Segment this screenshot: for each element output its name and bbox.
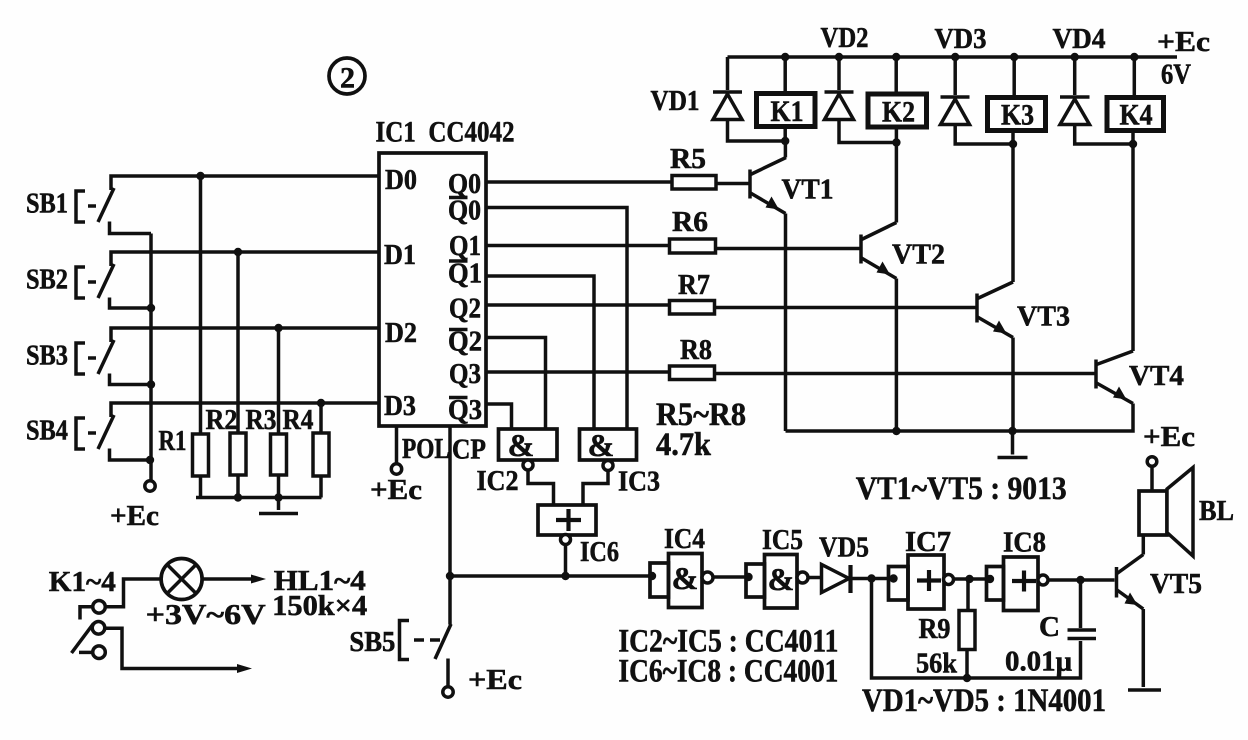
- wire VT5 emitter down: [1142, 609, 1146, 687]
- transistor VT3: [977, 282, 1070, 338]
- svg-text:0.01μ: 0.01μ: [1005, 646, 1073, 678]
- resistor R1: [159, 176, 209, 498]
- speaker BL: [1139, 468, 1234, 557]
- svg-text:+Ec: +Ec: [1157, 26, 1210, 58]
- wire Q3 to R8: [486, 370, 670, 374]
- lamp HL: [161, 559, 202, 600]
- resistor R3: [246, 328, 287, 498]
- wire D2: [111, 328, 379, 342]
- switch SB1: [26, 188, 151, 234]
- gate IC5: [746, 524, 808, 608]
- capacitor C: [1005, 580, 1096, 678]
- svg-text:&: &: [588, 427, 615, 463]
- svg-text:VT1~VT5 : 9013: VT1~VT5 : 9013: [856, 471, 1067, 507]
- node K1 bottom junction: [781, 137, 789, 145]
- svg-text:+3V~6V: +3V~6V: [146, 599, 266, 631]
- node R9 top junction: [965, 575, 973, 583]
- IC U1 body: [379, 153, 486, 426]
- gate IC7: [889, 526, 954, 609]
- gate IC3: [580, 427, 661, 498]
- svg-text:R6: R6: [672, 206, 708, 238]
- node R2 tap on D1: [234, 248, 242, 256]
- svg-text:4.7k: 4.7k: [656, 427, 712, 463]
- ground of resistor network: [259, 498, 298, 514]
- svg-text:+Ec: +Ec: [468, 664, 522, 696]
- svg-text:VD3: VD3: [935, 23, 987, 55]
- node VD5 feedback junction: [867, 574, 875, 582]
- switch SB3: [26, 340, 151, 385]
- svg-text:D0: D0: [385, 164, 417, 196]
- svg-text:D3: D3: [384, 390, 416, 422]
- node rail VD4: [1071, 53, 1079, 61]
- svg-text:VD5: VD5: [819, 532, 869, 564]
- svg-text:&: &: [672, 560, 699, 596]
- wire VD5 to IC7: [851, 577, 890, 581]
- svg-text:R3: R3: [246, 404, 277, 436]
- svg-text:+Ec: +Ec: [370, 474, 422, 506]
- terminal +Ec of speaker: [1143, 421, 1195, 491]
- wire common bus of SB switches: [149, 234, 153, 481]
- node R3 bottom junction: [274, 493, 282, 501]
- wire VT4 collector: [1131, 144, 1135, 351]
- node rail VD3: [951, 53, 959, 61]
- svg-text:SB3: SB3: [26, 340, 68, 372]
- node R2 bottom junction: [234, 493, 242, 501]
- svg-text:VT5: VT5: [1150, 568, 1202, 600]
- svg-text:R4: R4: [283, 404, 314, 436]
- svg-text:Q0: Q0: [448, 195, 481, 227]
- node IC4 input: [648, 572, 656, 580]
- svg-text:VD4: VD4: [1053, 23, 1106, 55]
- diode VD5: [819, 532, 869, 594]
- svg-text:VT4: VT4: [1129, 360, 1184, 392]
- resistor R6: [670, 206, 716, 253]
- svg-text:SB5: SB5: [349, 626, 395, 658]
- svg-text:2: 2: [340, 62, 355, 95]
- svg-text:C: C: [1039, 611, 1060, 643]
- wire R6 to VT2 base: [716, 247, 860, 251]
- svg-text:150k×4: 150k×4: [272, 590, 367, 622]
- svg-text:VT1: VT1: [782, 174, 834, 206]
- wire IC8 to VT5 base: [1048, 578, 1115, 582]
- wire Q0 to R5: [486, 180, 672, 184]
- pin POL stub and terminal: [370, 426, 422, 506]
- wire VT5 collector to speaker: [1142, 535, 1146, 555]
- svg-text:IC6: IC6: [580, 536, 619, 568]
- gate IC4: [650, 523, 713, 608]
- wire D3: [111, 403, 379, 417]
- wire feedback bottom: [872, 579, 1081, 679]
- node R3 tap on D2: [274, 324, 282, 332]
- svg-text:R7: R7: [678, 269, 710, 301]
- svg-text:IC6~IC8 : CC4001: IC6~IC8 : CC4001: [618, 654, 838, 690]
- wire emitter bus: [786, 404, 1134, 432]
- svg-text:IC3: IC3: [618, 466, 660, 498]
- node rail K3: [1010, 53, 1018, 61]
- resistor R2: [206, 252, 247, 498]
- svg-text:Q3: Q3: [449, 358, 481, 390]
- wire VT1 emitter down: [784, 214, 788, 432]
- svg-text:SB4: SB4: [26, 415, 68, 447]
- svg-text:D2: D2: [385, 317, 417, 349]
- svg-text:K2: K2: [882, 96, 915, 129]
- arrow to HL lamps bottom: [237, 664, 252, 673]
- node VT3 emitter junction: [1008, 427, 1016, 435]
- wire Q2bar: [486, 338, 546, 431]
- transistor VT1: [750, 158, 834, 214]
- diode VD3: [935, 23, 1014, 144]
- svg-text:IC1 CC4042: IC1 CC4042: [376, 116, 515, 149]
- node SB3 junction: [147, 380, 155, 388]
- node IC6 bus junction: [561, 572, 569, 580]
- switch SB5: [349, 621, 522, 698]
- wire CP line down: [448, 426, 452, 625]
- wire D0: [111, 176, 379, 190]
- switch SB2: [26, 264, 151, 309]
- svg-text:SB2: SB2: [26, 264, 68, 296]
- resistor R5: [670, 143, 716, 189]
- transistor VT5: [1117, 555, 1203, 610]
- svg-text:+Ec: +Ec: [1143, 421, 1195, 453]
- svg-text:VD2: VD2: [821, 22, 869, 54]
- resistor R4: [283, 403, 330, 498]
- wire Q0bar: [486, 208, 627, 431]
- node SB4 junction: [146, 456, 154, 464]
- node SB2 junction: [147, 304, 155, 312]
- gate IC6: [538, 505, 619, 568]
- svg-text:K3: K3: [1001, 99, 1034, 132]
- ground of VT5: [1128, 688, 1161, 692]
- wire Q1 to R6: [486, 244, 670, 248]
- svg-text:POL: POL: [402, 433, 450, 465]
- node R4 tap on D3: [317, 399, 325, 407]
- wire IC6 output to bus: [564, 545, 568, 577]
- contact lever K1-4: [72, 624, 94, 654]
- ground of emitter bus: [998, 431, 1028, 458]
- svg-text:VD1: VD1: [651, 85, 700, 117]
- wire +Ec supply rail: [728, 55, 1178, 59]
- transistor VT2: [861, 223, 945, 279]
- diode VD4: [1053, 23, 1134, 144]
- terminal +Ec of SB bus: [145, 481, 155, 491]
- svg-text:6V: 6V: [1161, 59, 1191, 91]
- svg-text:K4: K4: [1120, 99, 1153, 132]
- node R1 tap on D0: [196, 172, 204, 180]
- wire IC4 to IC5: [713, 575, 746, 579]
- relay K2: [868, 57, 927, 143]
- svg-text:VT2: VT2: [892, 239, 945, 271]
- wire lamp right with arrow: [202, 577, 253, 581]
- relay K3: [988, 57, 1046, 144]
- contact circle top: [93, 601, 106, 614]
- wire contact pole left: [80, 607, 93, 620]
- node K2 bottom junction: [892, 138, 900, 146]
- node VT2 emitter junction: [892, 427, 900, 435]
- node IC8 input: [986, 575, 994, 583]
- contact circle middle: [92, 622, 105, 635]
- node K3 bottom junction: [1009, 140, 1017, 148]
- svg-text:R9: R9: [919, 613, 951, 645]
- node rail K2: [892, 53, 900, 61]
- svg-text:R1: R1: [159, 425, 187, 457]
- gate IC2: [477, 427, 558, 497]
- resistor R9: [916, 579, 975, 680]
- svg-text:Q2: Q2: [449, 293, 481, 325]
- wire IC3 output to IC6: [583, 471, 608, 506]
- gate IC8: [987, 527, 1049, 611]
- node rail K1: [781, 53, 789, 61]
- transistor VT4: [1096, 351, 1184, 404]
- wire VT1 collector: [784, 141, 788, 158]
- resistor R8: [670, 334, 715, 380]
- wire resistor bottom bus: [196, 496, 322, 500]
- node R9 bottom junction: [963, 674, 971, 682]
- node K4 bottom junction: [1129, 140, 1137, 148]
- wire Q3bar: [486, 404, 512, 430]
- relay K4: [1107, 57, 1164, 144]
- svg-text:R8: R8: [680, 334, 712, 366]
- wire VT3 collector: [1011, 144, 1015, 282]
- svg-text:IC2: IC2: [477, 465, 519, 497]
- svg-text:VT3: VT3: [1017, 301, 1070, 333]
- node C top junction: [1076, 576, 1084, 584]
- wire IC7 to IC8: [954, 577, 987, 581]
- svg-text:IC4: IC4: [664, 523, 705, 555]
- svg-text:CP: CP: [452, 434, 486, 466]
- node CP bus junction: [446, 572, 454, 580]
- figure number 2: [329, 58, 365, 95]
- wire VT2 collector: [895, 143, 899, 223]
- node rail K4: [1130, 53, 1138, 61]
- svg-text:IC8: IC8: [1003, 527, 1046, 559]
- svg-text:&: &: [508, 427, 535, 463]
- svg-text:R2: R2: [206, 404, 238, 436]
- wire VT2 emitter down: [895, 279, 899, 432]
- wire Q1bar: [486, 276, 594, 430]
- wire R5 to VT1 base: [716, 182, 749, 186]
- wire lamp to contact: [106, 579, 161, 607]
- wire contact bottom stub: [79, 651, 93, 655]
- node IC7 input: [889, 574, 897, 582]
- svg-text:R5: R5: [670, 143, 706, 175]
- svg-text:BL: BL: [1199, 495, 1234, 527]
- wire IC5 to VD5: [808, 576, 822, 580]
- switch SB4: [26, 415, 151, 461]
- svg-text:K1: K1: [771, 95, 804, 128]
- diode VD2: [821, 22, 897, 143]
- node IC5 input: [744, 573, 752, 581]
- resistor R7: [670, 269, 715, 314]
- svg-text:SB1: SB1: [26, 188, 68, 220]
- wire VT3 emitter down: [1011, 338, 1015, 432]
- svg-text:VD1~VD5 : 1N4001: VD1~VD5 : 1N4001: [862, 683, 1106, 719]
- contact circle bottom: [93, 646, 106, 659]
- wire R7 to VT3 base: [715, 306, 977, 310]
- svg-text:&: &: [768, 561, 795, 597]
- wire oscillator bus: [450, 574, 650, 578]
- wire IC2 output to IC6: [528, 470, 554, 505]
- svg-text:56k: 56k: [916, 648, 958, 680]
- diode VD1: [651, 57, 786, 141]
- wire R8 to VT4 base: [715, 372, 1096, 376]
- wire D1: [111, 252, 379, 266]
- svg-text:+Ec: +Ec: [110, 500, 159, 532]
- wire Q2 to R7: [486, 303, 670, 307]
- svg-text:IC5: IC5: [762, 524, 803, 556]
- svg-text:K1~4: K1~4: [49, 566, 116, 598]
- svg-text:D1: D1: [384, 239, 416, 271]
- node rail VD2: [835, 53, 843, 61]
- wire middle contact to arrow: [105, 628, 240, 668]
- relay K1: [757, 57, 816, 141]
